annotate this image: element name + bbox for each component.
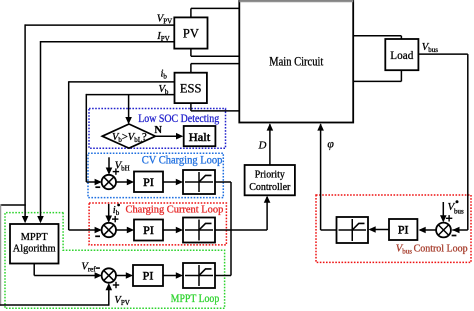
svg-text:Control Loop: Control Loop bbox=[414, 244, 468, 255]
svg-text:MPPT Loop: MPPT Loop bbox=[171, 293, 220, 305]
svg-text:ESS: ESS bbox=[180, 82, 202, 96]
svg-text:Algorithm: Algorithm bbox=[13, 242, 56, 254]
svg-text:MPPT: MPPT bbox=[21, 231, 48, 243]
svg-text:Low SOC Detecting: Low SOC Detecting bbox=[138, 113, 219, 125]
svg-text:CV Charging Loop: CV Charging Loop bbox=[142, 154, 223, 166]
svg-text:PV: PV bbox=[183, 27, 199, 41]
svg-text:Charging Current Loop: Charging Current Loop bbox=[126, 204, 224, 216]
svg-text:PI: PI bbox=[143, 175, 154, 189]
svg-text:Load: Load bbox=[390, 48, 413, 62]
svg-text:PI: PI bbox=[143, 223, 154, 237]
svg-text:PI: PI bbox=[143, 269, 154, 283]
svg-text:Main Circuit: Main Circuit bbox=[269, 55, 324, 69]
svg-text:Vb>VbL?: Vb>VbL? bbox=[112, 132, 147, 144]
svg-text:Controller: Controller bbox=[249, 182, 291, 193]
svg-text:bus: bus bbox=[454, 208, 464, 216]
svg-text:PI: PI bbox=[398, 223, 409, 237]
svg-text:φ: φ bbox=[327, 137, 334, 151]
svg-text:Priority: Priority bbox=[255, 170, 286, 181]
svg-text:D: D bbox=[258, 140, 267, 152]
svg-text:Halt: Halt bbox=[189, 130, 211, 144]
svg-text:N: N bbox=[154, 125, 162, 136]
